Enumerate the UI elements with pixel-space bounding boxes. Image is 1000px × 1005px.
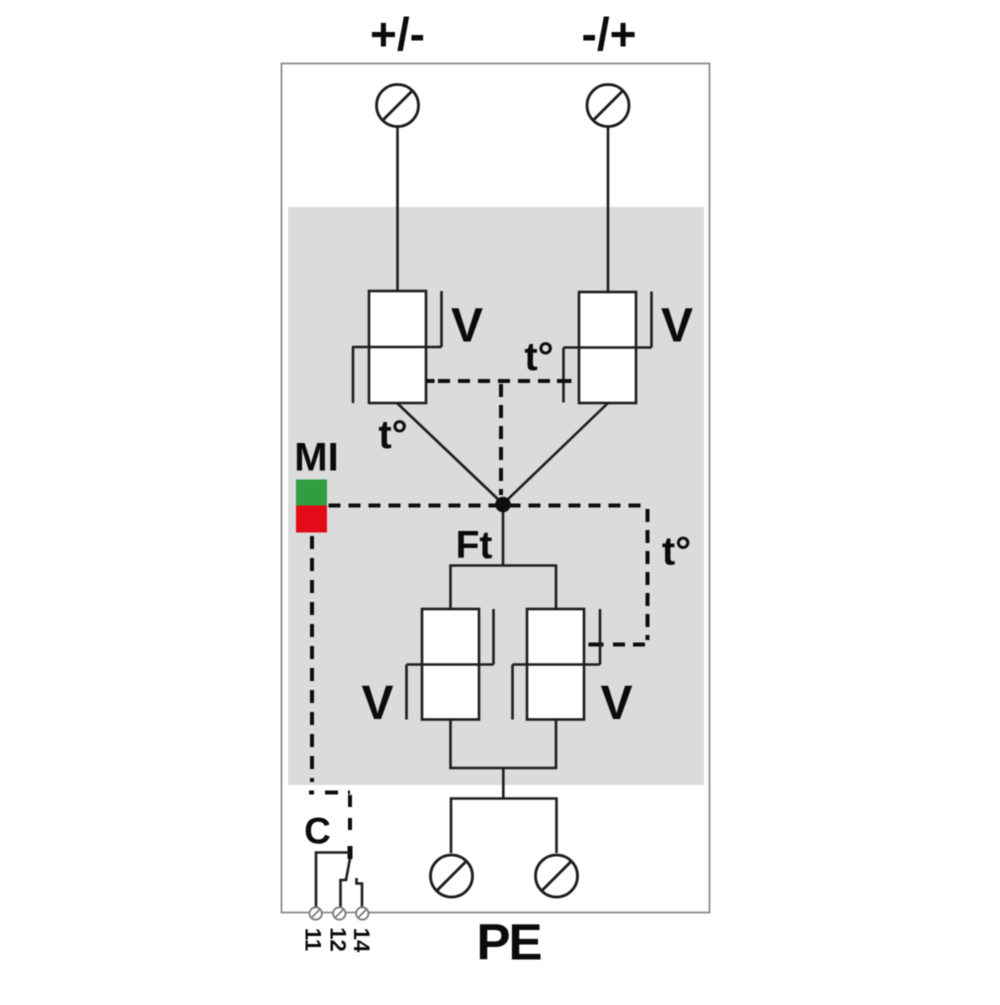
svg-text:12: 12 [326,927,351,951]
wire splitter to PE terminals [451,799,557,854]
varistor V4 [513,609,601,720]
terminal PE right screw [536,855,578,897]
svg-text:Ft: Ft [456,524,493,567]
varistor V1 [352,291,442,403]
svg-text:t°: t° [378,413,407,457]
svg-text:-/+: -/+ [582,8,637,60]
MI indicator green window [296,480,327,506]
wire terminal +/- to varistor V1 [396,127,399,292]
node Ft [495,497,511,513]
svg-text:V: V [600,677,632,730]
wire varistor V2 to node Ft [504,403,608,503]
dashed jog to contact C lever [309,793,350,860]
svg-text:PE: PE [476,914,541,971]
wire varistor V1 to node Ft [397,403,502,503]
wire terminal -/+ to varistor V2 [607,127,610,293]
terminal +/- screw [377,85,419,127]
wire node Ft down to parallel varistor pair [502,512,505,566]
dashed thermal line right corner down to V4 [589,509,648,645]
protection module shading [288,207,704,785]
terminal 12 [333,907,345,919]
terminal 11 [310,907,322,919]
dashed link down to node Ft [499,384,503,495]
terminal 14 [356,907,368,919]
terminal PE left screw [431,855,473,897]
dashed line MI to node Ft and onward to right [329,504,645,508]
svg-text:11: 11 [301,928,326,951]
dashed line MI indicator down to contact C [310,536,314,782]
changeover contact C [316,853,362,909]
svg-text:V: V [661,300,693,353]
svg-text:t°: t° [662,530,691,574]
terminal -/+ screw [587,85,629,127]
svg-text:V: V [451,300,483,353]
wire pair bottom to PE splitter [502,768,505,799]
svg-text:V: V [361,677,393,730]
varistor V2 [564,292,652,404]
wire splitter to V3 and V4 tops [451,566,557,610]
svg-text:+/-: +/- [370,8,425,60]
svg-text:14: 14 [349,928,374,953]
svg-text:MI: MI [294,436,338,480]
wire joining V3 and V4 bottoms [451,720,557,769]
device outline [282,64,710,913]
svg-text:C: C [304,811,331,852]
MI indicator red window [296,506,327,533]
dashed thermal link from V1 to V2 disconnect [426,379,572,383]
svg-text:t°: t° [524,335,553,379]
varistor V3 [407,609,494,720]
